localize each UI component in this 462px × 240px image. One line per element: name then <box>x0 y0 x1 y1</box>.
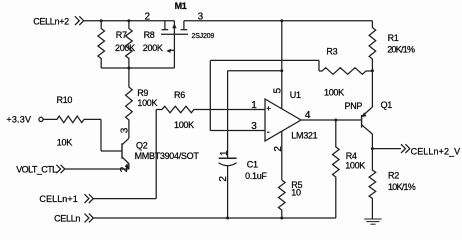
wire CELLn+2 top rail left segment <box>84 20 175 22</box>
connector VOLT_CTL <box>56 165 64 173</box>
label M1 <box>175 1 187 11</box>
transistor M1 gate plate <box>161 33 188 35</box>
node junction R8/top rail <box>127 19 130 22</box>
wire - input lead <box>210 130 265 132</box>
node junction R1/R3/Q1 <box>371 69 374 72</box>
svg-text:LM321: LM321 <box>291 130 317 140</box>
transistor M1 drain leg <box>181 21 188 30</box>
svg-text:R9: R9 <box>137 88 148 98</box>
svg-text:100K: 100K <box>137 98 157 108</box>
label R7 <box>116 30 127 40</box>
wire - feedback vertical <box>209 60 211 130</box>
transistor Q2 collector lead <box>122 138 129 145</box>
op-amp U1 triangle <box>265 99 301 141</box>
resistor R4 <box>333 120 340 218</box>
value 100K (R3) <box>324 87 344 97</box>
pin 3 label (Q2 collector) <box>120 127 131 133</box>
svg-text:Q2: Q2 <box>136 140 148 150</box>
wire CELLn+1 up to R6 <box>155 110 157 199</box>
wire VOLT_CTL to Q2 emitter <box>65 164 129 169</box>
pin 3 label (M1) <box>198 11 204 22</box>
svg-text:100K: 100K <box>345 161 365 171</box>
pin 2 label (Q2 emitter) <box>119 166 130 172</box>
wire bypass down to C1 <box>227 71 229 159</box>
capacitor C1 bottom plate <box>219 163 237 166</box>
ground <box>364 219 381 224</box>
pin 1 label (U1) <box>251 100 257 111</box>
label C1 <box>247 159 258 169</box>
transistor Q2 emitter <box>122 157 129 169</box>
wire - feedback top horizontal <box>210 59 319 61</box>
connector CELLn+2_V <box>401 144 410 153</box>
value 200K (R7) <box>115 43 135 53</box>
label PNP <box>345 101 363 111</box>
node junction R9/rail <box>127 67 130 70</box>
net label VOLT_CTL <box>16 164 57 174</box>
label Q2 <box>136 140 148 150</box>
svg-text:3: 3 <box>251 121 257 132</box>
net label CELLn+1 <box>39 194 77 204</box>
wire jog down to R3 <box>318 60 320 71</box>
svg-text:200K: 200K <box>143 43 163 53</box>
node junction output/R2 <box>371 147 374 150</box>
svg-text:10K/1%: 10K/1% <box>388 182 416 192</box>
svg-text:1: 1 <box>251 100 257 111</box>
svg-text:PNP: PNP <box>345 101 363 111</box>
net label CELLn+2 <box>33 16 69 26</box>
transistor Q1 base bar <box>361 115 363 128</box>
value 2SJ209 (M1) <box>192 33 215 40</box>
pin 1 label (C1) <box>219 150 230 156</box>
svg-text:R8: R8 <box>144 30 155 40</box>
label R6 <box>174 90 185 100</box>
connector CELLn <box>85 214 94 223</box>
wire Q1 emitter up <box>371 71 373 107</box>
label R10 <box>57 95 73 105</box>
label R8 <box>144 30 155 40</box>
transistor Q1 collector <box>362 125 373 134</box>
svg-text:2SJ209: 2SJ209 <box>192 33 215 40</box>
svg-text:-: - <box>267 127 270 137</box>
svg-text:2: 2 <box>273 146 284 152</box>
svg-text:CELLn+2: CELLn+2 <box>33 16 69 26</box>
resistor R6 <box>156 106 265 113</box>
wire CELLn+1 rail <box>93 198 156 200</box>
transistor M1 bulk arrow <box>172 21 176 35</box>
pin 5 label (U1) <box>272 88 283 94</box>
node junction R7/top rail <box>100 19 103 22</box>
svg-text:0.1uF: 0.1uF <box>245 171 267 181</box>
svg-text:R10: R10 <box>57 95 73 105</box>
svg-text:+: + <box>266 104 271 113</box>
svg-text:3: 3 <box>120 127 131 133</box>
resistor R1 <box>369 21 376 71</box>
connector CELLn+1 <box>85 194 94 203</box>
plus sign (U1) <box>266 104 271 113</box>
capacitor C1 top plate <box>219 157 237 159</box>
value 100K (R9) <box>137 98 157 108</box>
resistor R3 <box>319 68 372 75</box>
connector CELLn+2 <box>75 16 84 25</box>
svg-text:R4: R4 <box>346 151 357 161</box>
wire pin5 to top rail <box>281 21 283 109</box>
svg-text:100K: 100K <box>174 120 194 130</box>
value 10 (R5) <box>291 188 301 198</box>
svg-text:M1: M1 <box>175 1 187 11</box>
node junction R5/bottom rail <box>280 217 283 220</box>
value 100K (R4) <box>345 161 365 171</box>
label U1 <box>290 90 301 100</box>
value 20K/1% (R1) <box>387 44 415 54</box>
svg-text:Q1: Q1 <box>381 100 393 110</box>
resistor R2 <box>369 149 376 219</box>
svg-text:1: 1 <box>219 150 230 156</box>
wire Q1 collector down <box>371 134 373 149</box>
net label CELLn <box>54 213 80 223</box>
label R9 <box>137 88 148 98</box>
svg-text:20K/1%: 20K/1% <box>387 44 415 54</box>
svg-text:R7: R7 <box>116 30 127 40</box>
svg-text:C1: C1 <box>247 159 258 169</box>
svg-text:+3.3V: +3.3V <box>6 114 31 124</box>
pin 4 label (U1) <box>305 110 311 121</box>
svg-text:MMBT3904/SOT: MMBT3904/SOT <box>135 151 200 161</box>
pin 3 label (U1) <box>251 121 257 132</box>
net label +3.3V <box>6 114 31 124</box>
wire output pin4 <box>301 119 362 121</box>
label R1 <box>388 33 399 43</box>
svg-text:2: 2 <box>145 11 151 22</box>
wire R7/R8 bottom rail to M1 gate <box>101 67 174 69</box>
wire Q2 emitter down <box>128 164 130 169</box>
wire C1 to bottom rail <box>227 166 229 218</box>
value 200K (R8) <box>143 43 163 53</box>
label R2 <box>388 170 399 180</box>
wire output to connector <box>372 148 401 150</box>
minus sign (U1) <box>267 127 270 137</box>
resistor R7 <box>98 21 105 68</box>
svg-text:CELLn+1: CELLn+1 <box>39 194 77 204</box>
transistor Q2 base bar <box>121 143 123 158</box>
node junction R4/output <box>334 119 337 122</box>
svg-text:100K: 100K <box>324 87 344 97</box>
transistor Q1 emitter <box>362 107 373 117</box>
value MMBT3904/SOT (Q2) <box>135 151 200 161</box>
svg-text:10K: 10K <box>57 137 72 147</box>
wire top rail right segment <box>184 20 373 22</box>
value LM321 (U1) <box>291 130 317 140</box>
svg-text:CELLn+2_V: CELLn+2_V <box>411 146 461 156</box>
svg-text:R6: R6 <box>174 90 185 100</box>
label R3 <box>326 47 337 57</box>
transistor M1 gate lead <box>173 34 175 68</box>
wire CELLn bottom rail <box>93 217 335 219</box>
wire R10 to Q2 base <box>100 119 102 151</box>
transistor Q2 base lead <box>101 150 122 152</box>
svg-text:5: 5 <box>272 88 283 94</box>
terminal circle +3.3V <box>39 117 43 121</box>
node junction bypass/pin5 <box>280 69 283 72</box>
transistor M1 source leg <box>162 21 169 30</box>
svg-text:4: 4 <box>305 110 311 121</box>
value 100K (R6) <box>174 120 194 130</box>
svg-text:R3: R3 <box>326 47 337 57</box>
pin 2 label (C1) <box>218 176 229 182</box>
svg-text:10: 10 <box>291 188 301 198</box>
value 10K (R10) <box>57 137 72 147</box>
svg-text:R2: R2 <box>388 170 399 180</box>
svg-text:R1: R1 <box>388 33 399 43</box>
svg-text:VOLT_CTL: VOLT_CTL <box>16 164 57 174</box>
resistor R5 <box>279 180 286 218</box>
label R5 <box>291 180 302 190</box>
wire pin2 down <box>281 131 283 180</box>
svg-text:CELLn: CELLn <box>54 213 80 223</box>
value 0.1uF (C1) <box>245 171 267 181</box>
net label CELLn+2_V <box>411 146 461 156</box>
node junction C1/bottom rail <box>226 217 229 220</box>
label Q1 <box>381 100 393 110</box>
svg-text:U1: U1 <box>290 90 301 100</box>
resistor R9 <box>126 68 133 138</box>
pin 2 label (M1) <box>145 11 151 22</box>
node junction top rail / pin5 <box>280 19 283 22</box>
label R4 <box>346 151 357 161</box>
transistor M1 gate arrow <box>166 49 174 53</box>
value 10K/1% (R2) <box>388 182 416 192</box>
resistor R8 <box>126 21 133 68</box>
wire bypass horizontal <box>228 70 282 72</box>
resistor R10 <box>43 116 101 123</box>
pin 2 label (U1) <box>273 146 284 152</box>
